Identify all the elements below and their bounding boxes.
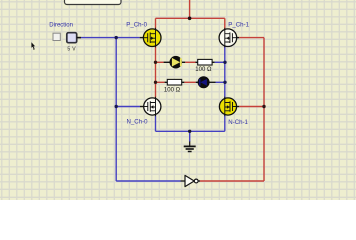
wire: left column blue below N_Ch-0	[155, 115, 157, 131]
MOSFET N_Ch-0 (off)	[144, 97, 161, 117]
Direction logic toggle button	[53, 33, 60, 40]
wire: right column blue (P_Ch-1 bottom to N-Ch-1 and below)	[224, 46, 226, 131]
svg-text:P_Ch-0: P_Ch-0	[126, 21, 147, 28]
wire: VCC feed vertical into rail	[189, 0, 191, 18]
svg-text:P_Ch-1: P_Ch-1	[228, 22, 249, 29]
wire: N-Ch-1 gate lead	[236, 106, 239, 108]
wire: row2 red R2 to LED2	[184, 81, 195, 83]
svg-text:Direction: Direction	[49, 22, 73, 28]
svg-text:5 V: 5 V	[67, 47, 76, 53]
node junction right control	[262, 105, 265, 108]
svg-text:N-Ch-1: N-Ch-1	[228, 119, 248, 126]
wire: right column red into P_Ch-1	[224, 18, 226, 29]
wire: resistor R1 left lead	[196, 61, 198, 63]
wire: top VCC rail	[156, 17, 225, 19]
wire: LED D1 anode lead	[164, 61, 170, 63]
wire: N-Ch-1 gate red	[239, 106, 264, 108]
wire: row1 blue right of R1	[215, 61, 225, 63]
wire: N_Ch-0 gate blue	[116, 106, 140, 108]
MOSFET P_Ch-0 (on, highlighted)	[143, 28, 161, 48]
node junction row2 left	[154, 81, 157, 84]
wire: row2 black right of LED2	[209, 81, 216, 83]
wire: P_Ch-0 gate lead	[140, 37, 144, 39]
wire: N_Ch-0 gate lead	[140, 106, 144, 108]
wire: bottom ground run	[156, 130, 225, 132]
node junction row1 left	[154, 61, 157, 64]
inverter U1 (NOT gate)	[181, 175, 201, 186]
svg-text:N_Ch-0: N_Ch-0	[127, 119, 149, 126]
Direction logic state box	[67, 33, 77, 43]
node junction row2 right	[223, 81, 226, 84]
MOSFET P_Ch-1 (off)	[219, 28, 237, 48]
wire: left column drain red (P_Ch-0 to N_Ch-0)	[155, 18, 157, 98]
wire: blue vertical control line	[115, 38, 117, 181]
wire: ground stub	[189, 131, 191, 142]
wire: blue to inverter input	[116, 180, 180, 182]
wire: P_Ch-1 gate red	[239, 37, 264, 39]
Direction output pin stub	[77, 37, 81, 39]
node junction on rail	[188, 17, 192, 21]
LED D2 (off)	[198, 76, 210, 88]
node junction row1 right	[223, 61, 226, 64]
LED D1 (lit)	[170, 56, 183, 69]
node junction control top	[115, 36, 118, 39]
wire: LED D2 anode lead	[196, 81, 199, 83]
cropped UI box at top edge	[65, 0, 122, 5]
wire: LED D1 cathode lead	[182, 61, 185, 63]
svg-text:100 Ω: 100 Ω	[195, 67, 212, 73]
wire: resistor R2 left lead	[165, 81, 168, 83]
wire: row1 red LED1 to R1	[185, 61, 195, 63]
node junction control mid	[115, 105, 118, 108]
ground	[184, 142, 196, 152]
resistor R2 100Ω	[167, 79, 181, 85]
wire: row2 blue tail	[216, 81, 225, 83]
wire: resistor R2 right lead	[182, 81, 185, 83]
wire: inverter output red	[200, 180, 265, 182]
wire: resistor R1 right lead	[212, 61, 215, 63]
wire: row1 red left	[156, 61, 164, 63]
MOSFET N-Ch-1 (on, highlighted)	[219, 97, 236, 117]
resistor R1 100Ω	[198, 59, 212, 65]
wire: row2 red left	[156, 81, 165, 83]
wire: Direction output blue to P_Ch-0 gate	[81, 37, 140, 39]
node junction ground	[188, 130, 191, 133]
svg-text:100 Ω: 100 Ω	[164, 88, 181, 94]
mouse cursor	[31, 42, 35, 48]
wire: P_Ch-1 gate lead	[236, 37, 239, 39]
wire: right control vertical red	[263, 38, 265, 181]
